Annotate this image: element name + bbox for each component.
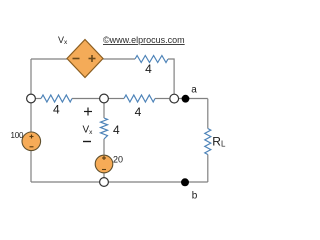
- terminal a dot: [182, 95, 190, 103]
- resistor 4 vertical: [101, 118, 108, 139]
- wire middle vertical: node down to resistor: [103, 103, 105, 118]
- wire 20 source to bottom node: [103, 173, 105, 178]
- node open circle bottom: [100, 178, 109, 187]
- wire right vertical lower: [207, 155, 209, 183]
- voltage source 100: [22, 132, 41, 151]
- minus sign inside diamond: [73, 58, 80, 60]
- resistor 4 middle-left: [41, 95, 72, 102]
- wire node to right resistor: [109, 98, 125, 100]
- node open circle right: [170, 94, 179, 103]
- wire left vertical: [30, 59, 32, 182]
- wire right resistor to node a: [155, 98, 169, 100]
- wire middle between resistors: [72, 98, 100, 100]
- resistor RL: [205, 129, 211, 155]
- dependent source diamond Vx: [67, 40, 103, 78]
- wire vertical resistor to 20 source: [103, 139, 105, 155]
- annotation minus (Vx polarity): [83, 141, 91, 143]
- node open circle left: [27, 94, 36, 103]
- wire top-left: left corner to diamond left tip: [31, 58, 67, 60]
- svg-text:4: 4: [135, 105, 142, 119]
- svg-text:b: b: [192, 191, 198, 202]
- plus sign in 100 source: [30, 136, 34, 138]
- svg-text:4: 4: [113, 123, 120, 137]
- node open circle middle: [100, 94, 109, 103]
- minus sign in 100 source: [30, 146, 34, 148]
- svg-text:a: a: [191, 85, 197, 96]
- minus sign in 20 source: [102, 169, 106, 171]
- wire top: diamond right tip to resistor: [103, 58, 135, 60]
- plus sign inside diamond: [89, 58, 96, 60]
- svg-text:4: 4: [145, 62, 152, 76]
- svg-text:20: 20: [113, 155, 123, 165]
- wire right vertical: [207, 99, 209, 129]
- wire middle row: [35, 98, 41, 100]
- annotation plus (Vx polarity): [84, 111, 92, 113]
- wire bottom: [31, 181, 208, 183]
- svg-text:4: 4: [53, 102, 60, 116]
- wire node a to right corner: [178, 98, 208, 100]
- resistor 4 middle-right: [124, 95, 155, 102]
- resistor 4 top: [135, 56, 168, 63]
- svg-text:100: 100: [11, 131, 24, 140]
- svg-text:©www.elprocus.com: ©www.elprocus.com: [103, 35, 185, 45]
- plus sign in 20 source: [102, 157, 106, 159]
- wire top-right corner down: [168, 59, 174, 95]
- voltage source 20: [95, 155, 113, 173]
- terminal b dot: [181, 178, 189, 186]
